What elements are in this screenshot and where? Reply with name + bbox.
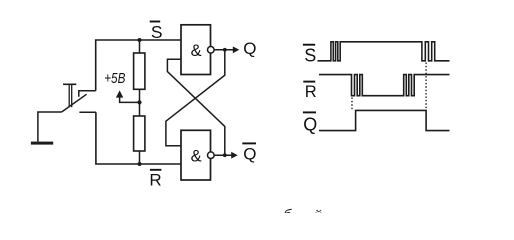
waveform S-bar trace (318, 42, 450, 61)
wire feedback Q to DD1.2 input (166, 50, 225, 146)
pushbutton switch upper throw contact (79, 91, 96, 97)
node Q-bar junction dot (223, 153, 227, 157)
waveform Q-bar label (303, 112, 317, 134)
svg-text:S: S (304, 46, 316, 66)
pushbutton switch lever (62, 94, 87, 112)
dotted guide left R-bar fall to Q-bar rise (351, 98, 353, 110)
pushbutton actuator double stem (68, 84, 70, 107)
svg-text:S: S (151, 22, 163, 42)
label S-bar (150, 22, 163, 42)
svg-text:+5В: +5В (104, 70, 125, 87)
resistor R2 (134, 116, 145, 151)
resistor R1 (134, 53, 145, 89)
node Q junction dot (223, 48, 227, 52)
label Q-bar (242, 143, 256, 163)
waveform R-bar label (303, 82, 317, 101)
waveform Q-bar trace (319, 110, 450, 130)
svg-text:&: & (191, 42, 202, 60)
NAND gate DD1.1 body (181, 25, 211, 75)
wire S-bar net top horizontal (96, 40, 181, 91)
svg-text:б: б (284, 206, 293, 213)
wire Q output with arrow (214, 49, 233, 51)
wire R1 to midpoint node (139, 89, 141, 116)
pushbutton switch lower throw contact (79, 111, 96, 113)
svg-text:Q: Q (243, 39, 256, 58)
wire feedback Q-bar to DD1.1 input (167, 59, 224, 155)
wire R2 to R-bar net (139, 151, 141, 164)
svg-text:Q: Q (303, 115, 317, 135)
dotted guide right S-bar fall to Q-bar fall (425, 63, 427, 110)
label R-bar (149, 170, 161, 190)
svg-text:R: R (149, 170, 161, 189)
node R-bar junction dot (138, 162, 142, 166)
svg-text:&: & (191, 147, 202, 165)
NAND gate DD1.2 body (181, 130, 211, 180)
waveform R-bar trace (319, 75, 450, 96)
wire switch pole to ground (38, 112, 62, 142)
wire S-bar dot to resistor R1 (139, 40, 141, 53)
wire R-bar net bottom horizontal (96, 112, 181, 164)
wire Q-bar output with arrow (214, 154, 232, 156)
ground (31, 142, 53, 145)
pushbutton actuator T cap (63, 83, 76, 85)
svg-text:R: R (305, 83, 317, 101)
NAND gate DD1.1 output bubble (208, 47, 215, 54)
svg-text:Q: Q (243, 145, 256, 164)
svg-text:й: й (314, 207, 322, 213)
waveform S-bar label (303, 45, 316, 66)
NAND gate DD1.2 output bubble (208, 152, 215, 159)
node +5V midpoint junction dot (137, 100, 141, 104)
power +5V arrow (120, 97, 140, 103)
node S-bar junction dot (138, 38, 142, 42)
